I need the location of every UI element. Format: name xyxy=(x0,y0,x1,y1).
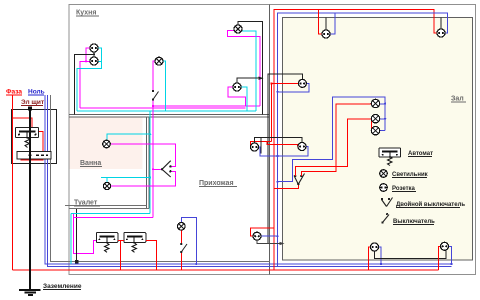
wire kitchen lamp2 cyan xyxy=(242,31,256,111)
wire kitchen lamp cyan xyxy=(163,61,166,111)
lamp kitchen L2 xyxy=(234,25,242,33)
wire kitchen magenta run xyxy=(153,105,260,107)
wire kitchen magenta run 2 xyxy=(80,107,245,109)
socket hallway A xyxy=(251,143,259,151)
wire kitchen socket K3 ground xyxy=(237,77,262,83)
legend lamp symbol xyxy=(380,170,388,178)
wire socket T2 blue tap xyxy=(330,13,335,34)
legend socket symbol xyxy=(380,184,388,192)
panel box xyxy=(12,110,57,164)
wire zal bottom socket S2 red xyxy=(439,246,441,270)
wire zal wall socket Z0 ground xyxy=(268,74,302,244)
meter in panel xyxy=(17,152,51,160)
socket hallway B xyxy=(298,143,306,151)
wire zal switch feed red xyxy=(274,184,299,188)
wire kitchen sockets magenta xyxy=(80,48,90,108)
legend label Выключатель xyxy=(393,219,435,225)
wire hall lamp red + switch xyxy=(180,230,182,270)
wire neutral riser 1 xyxy=(45,95,452,264)
wire sockets AB blue xyxy=(258,147,308,157)
wire cyan toilet riser to panel xyxy=(70,214,72,265)
wire hall lamp blue xyxy=(181,218,196,265)
wire phase red riser xyxy=(12,95,14,270)
wire hallway socket P red xyxy=(251,228,274,236)
wire zal red riser 2 top run xyxy=(274,10,437,271)
wire magenta toilet riser to panel xyxy=(74,218,97,254)
wire socket T2 ground xyxy=(325,18,327,31)
ground symbol xyxy=(19,290,41,295)
lamp toilet xyxy=(103,182,110,189)
breaker in panel xyxy=(16,128,39,148)
wire zal wall socket Z0 red xyxy=(272,82,299,84)
label Фаза xyxy=(6,89,22,96)
legend label Двойной выключатель xyxy=(396,201,465,208)
socket hallway P xyxy=(253,232,261,240)
wire zal wall socket Z0 blue xyxy=(278,83,310,91)
wire bath lamp cyan xyxy=(107,111,150,213)
lamp kitchen L1 xyxy=(155,57,163,65)
label Кухня xyxy=(76,10,99,17)
label Эл щит xyxy=(21,99,44,106)
wire kitchen sockets cyan xyxy=(77,48,102,111)
legend label Розетка xyxy=(392,186,416,192)
switch double bath-toilet xyxy=(161,161,172,177)
wire socket T1 ground xyxy=(440,18,442,30)
wall bath-hall vertical xyxy=(147,117,150,209)
wall kitchen-hall vertical xyxy=(269,5,271,275)
legend label Светильник xyxy=(392,172,428,178)
wire PE gray line xyxy=(51,95,271,262)
legend double switch symbol xyxy=(381,198,393,207)
wire hallway socket P ground xyxy=(257,240,283,245)
wire hallway socket P blue xyxy=(261,235,278,237)
socket zal wall Z0 xyxy=(298,79,306,87)
switch double zal xyxy=(294,174,305,186)
lamp zal 3 xyxy=(371,127,379,135)
wire phase rail bottom xyxy=(13,269,439,271)
socket kitchen K2 xyxy=(90,57,98,65)
legend breaker symbol xyxy=(379,148,401,166)
lamp zal 2 xyxy=(371,115,379,123)
wire bath lamp magenta switched xyxy=(110,144,175,167)
wire zal bottom socket S1 red xyxy=(369,247,371,270)
wall kitchen bottom xyxy=(69,115,270,118)
wire toilet lamp magenta switched xyxy=(111,171,176,186)
wire kitchen lamp magenta + switch drop xyxy=(153,61,155,217)
label Прихожая xyxy=(199,180,237,187)
wire zal bottom socket S1 blue xyxy=(379,247,381,264)
wire zal red riser 1 xyxy=(271,83,273,141)
svg-text:Прихожая: Прихожая xyxy=(199,180,234,187)
wire kitchen socket K3 cyan xyxy=(241,87,247,111)
wire zal blue riser top run xyxy=(278,13,448,267)
wire zal switched line 1 red xyxy=(295,119,371,176)
breaker group 2 xyxy=(124,233,146,253)
label Ноль xyxy=(28,89,45,96)
lamp zal 1 xyxy=(371,99,379,107)
legend label Автомат xyxy=(408,151,433,157)
wire panel phase feed to breaker xyxy=(13,118,44,160)
svg-text:Ванна: Ванна xyxy=(80,160,101,167)
label Зал xyxy=(451,96,466,103)
legend switch symbol xyxy=(381,213,389,224)
wire neutral riser 2 xyxy=(48,95,452,267)
wire toilet ground black xyxy=(76,209,78,262)
svg-text:Кухня: Кухня xyxy=(76,10,96,17)
socket zal bottom S2 xyxy=(441,242,449,250)
wire breaker2 red connections xyxy=(118,241,157,271)
wire zal lamps blue chain xyxy=(278,97,386,182)
switch hall xyxy=(180,243,187,253)
main ground conductor thick xyxy=(28,107,32,290)
label Туалет xyxy=(74,200,100,207)
label Ванна xyxy=(80,160,102,167)
switch kitchen xyxy=(152,90,159,101)
wire toilet run magenta xyxy=(74,214,154,218)
wire kitchen cyan run xyxy=(77,110,256,112)
wire zal bottom socket S2 blue xyxy=(449,246,452,264)
wire kitchen lamp2 black xyxy=(238,22,263,115)
socket kitchen K3 xyxy=(233,83,241,91)
room Ванна background xyxy=(70,118,143,170)
wire kitchen socket K3 magenta xyxy=(228,87,245,106)
svg-text:Зал: Зал xyxy=(451,96,464,103)
socket zal bottom S1 xyxy=(371,243,379,251)
label Заземление xyxy=(43,283,82,290)
room Зал background xyxy=(283,18,473,261)
lamp bath xyxy=(103,140,111,148)
wire zal bottom sockets ground xyxy=(375,250,447,259)
lamp hall xyxy=(178,223,186,231)
apartment outer wall xyxy=(69,5,476,275)
wire toilet run cyan xyxy=(71,213,150,215)
socket zal top T1 xyxy=(437,29,445,37)
wire toilet lamp cyan xyxy=(101,178,150,183)
wire kitchen sockets ground black xyxy=(75,52,95,114)
socket zal top T2 xyxy=(322,30,330,38)
wire bath switch feed magenta xyxy=(153,168,162,170)
socket kitchen K1 xyxy=(90,44,98,52)
wire socket T2 red tap xyxy=(319,10,322,35)
wire zal switched line 2 red xyxy=(301,104,371,176)
breaker group 1 xyxy=(96,233,118,253)
wall toilet bottom xyxy=(65,206,149,209)
wire sockets AB red xyxy=(251,142,298,148)
wire kitchen lamp2 magenta xyxy=(228,31,261,107)
wire sockets AB ground xyxy=(255,138,303,154)
